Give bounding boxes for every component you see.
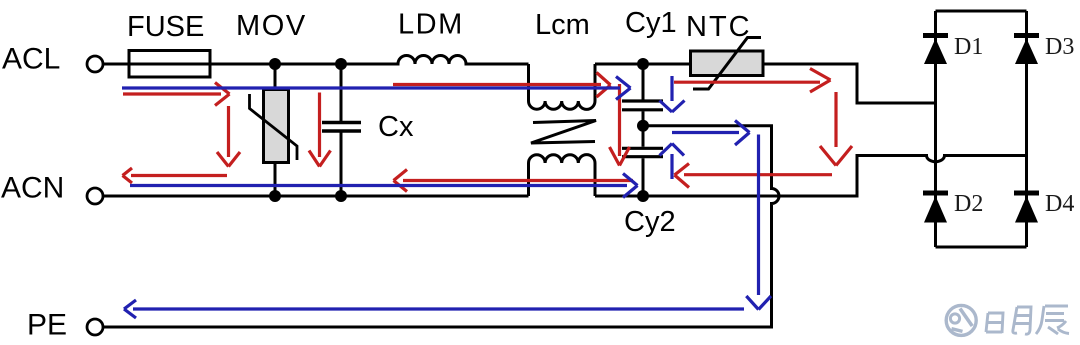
blue current arrow B2 down through Cy1 <box>660 76 685 112</box>
junction dot MOV bottom <box>269 190 281 202</box>
common-mode choke Lcm core <box>531 121 596 144</box>
svg-text:D1: D1 <box>954 34 983 60</box>
red current arrow R4 down through Cx <box>309 93 331 167</box>
blue current arrow B4 up through Cy2 <box>660 144 685 180</box>
svg-text:Lcm: Lcm <box>535 9 590 41</box>
svg-text:Cy2: Cy2 <box>624 206 676 238</box>
red current arrow R8 down to bridge <box>820 92 852 166</box>
svg-text:D4: D4 <box>1045 191 1074 217</box>
red current arrow R5 along L to Cy1 <box>393 73 611 98</box>
varistor MOV diagonal <box>250 94 298 160</box>
watermark text ri (sun) <box>986 313 1003 333</box>
common-mode choke Lcm bottom winding <box>529 155 596 196</box>
varistor MOV body <box>264 90 289 163</box>
blue current arrow B3 along mid wire <box>672 121 750 146</box>
capacitor Cy2 plates <box>622 148 663 156</box>
svg-text:LDM: LDM <box>398 9 464 41</box>
terminal ACN <box>87 188 103 204</box>
svg-text:MOV: MOV <box>236 10 307 42</box>
blue current arrow B7 along ACN to Cy2 <box>130 174 638 198</box>
blue current arrow B1 along L line <box>122 77 631 100</box>
red current arrow R2 down through MOV <box>217 106 240 167</box>
terminal ACL <box>87 56 103 72</box>
red current arrow R3 out on ACN <box>123 168 228 183</box>
junction dot Cx top <box>335 58 347 70</box>
wire mid node to PE with hop over ACN <box>104 126 779 327</box>
junction dot MOV top <box>269 58 281 70</box>
diode D3 <box>1014 36 1039 65</box>
wire ACN line <box>104 156 1027 197</box>
wire top from NTC to bridge <box>763 64 936 103</box>
svg-text:NTC: NTC <box>686 11 752 43</box>
svg-text:PE: PE <box>27 309 67 342</box>
red current arrow R9 return toward Cy2 <box>675 164 833 188</box>
diode D1 <box>923 36 948 65</box>
thermistor NTC body <box>691 51 764 76</box>
wire top from Lcm to NTC <box>595 63 690 66</box>
diode D2 <box>923 193 948 223</box>
common-mode choke Lcm top winding <box>529 64 596 109</box>
capacitor Cy2 wires <box>642 126 645 196</box>
blue current arrow B5 down to PE <box>746 135 771 310</box>
svg-text:FUSE: FUSE <box>127 11 204 43</box>
watermark text chen <box>1036 306 1069 334</box>
blue current arrow B6 out along PE <box>124 300 744 318</box>
wire ACL line with LDM coil <box>104 56 529 65</box>
red current arrow R1 into L line <box>123 83 230 106</box>
red current arrow R7 along L through NTC <box>674 69 831 93</box>
svg-text:ACN: ACN <box>1 172 64 205</box>
red current arrow R10 return on N line <box>394 170 634 192</box>
junction dot Cy mid <box>637 120 649 132</box>
diode D4 <box>1014 193 1039 223</box>
fuse F1 body <box>129 51 210 78</box>
capacitor Cx wires <box>340 64 343 196</box>
junction dot Cy1 top <box>637 58 649 70</box>
svg-text:D3: D3 <box>1045 34 1074 60</box>
watermark text yue (moon) <box>1013 307 1031 334</box>
svg-text:D2: D2 <box>954 191 983 217</box>
red current arrow R6 down through Cy <box>610 84 630 166</box>
capacitor Cy1 wires <box>642 64 645 126</box>
watermark logo circle <box>946 305 976 335</box>
junction dot Cx bottom <box>335 190 347 202</box>
thermistor NTC diagonal <box>693 38 761 90</box>
bridge rectifier frame <box>936 11 1027 247</box>
junction dot Cy2 bottom <box>637 190 649 202</box>
svg-text:ACL: ACL <box>2 43 60 76</box>
terminal PE <box>87 319 103 335</box>
varistor MOV wire <box>274 64 277 196</box>
svg-text:Cx: Cx <box>378 111 414 143</box>
svg-text:Cy1: Cy1 <box>625 7 677 39</box>
capacitor Cx plates <box>322 123 361 132</box>
capacitor Cy1 plates <box>622 101 663 110</box>
